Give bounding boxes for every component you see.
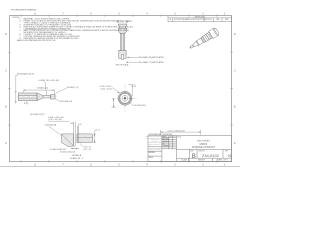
svg-text:WEIGHT:: WEIGHT: <box>198 160 206 162</box>
svg-text:(.04): (.04) <box>70 123 74 125</box>
svg-text:JMS: JMS <box>169 136 172 138</box>
svg-text:[1.42 +.05/-.03]: [1.42 +.05/-.03] <box>48 119 62 121</box>
svg-text:Ø0.046[Ø1.17] MIN PLATED: Ø0.046[Ø1.17] MIN PLATED <box>138 61 164 64</box>
svg-text:TITLE:: TITLE: <box>177 136 182 138</box>
svg-text:SECTION A-A: SECTION A-A <box>116 63 129 66</box>
svg-text:[1.27 +.3]: [1.27 +.3] <box>83 149 91 151</box>
svg-text:234-0102: 234-0102 <box>202 153 220 158</box>
svg-text:DETAIL B: DETAIL B <box>72 154 82 157</box>
svg-text:0.060±.005[1.52]: 0.060±.005[1.52] <box>60 152 75 154</box>
svg-text:(.12): (.12) <box>120 22 124 24</box>
svg-text:(.03): (.03) <box>78 124 82 126</box>
svg-text:B: B <box>192 154 196 160</box>
svg-text:CHECKED: CHECKED <box>162 138 168 140</box>
svg-text:B (2): B (2) <box>24 103 29 105</box>
svg-text:03/15/21: 03/15/21 <box>205 19 211 21</box>
svg-text:(0.1): (0.1) <box>95 130 99 132</box>
svg-text:[3.25 +0.05]: [3.25 +0.05] <box>101 88 112 90</box>
svg-text:REVISIONS: REVISIONS <box>195 16 206 18</box>
svg-text:SIZE: SIZE <box>190 150 193 152</box>
svg-text:Ø0.0600[Ø1.52] 4X: Ø0.0600[Ø1.52] 4X <box>17 74 35 76</box>
svg-text:Ø0.145[3.68]: Ø0.145[3.68] <box>134 105 146 107</box>
svg-text:Ø0.046[1.17]: Ø0.046[1.17] <box>67 87 79 89</box>
svg-text:PRO/ENGINEER DRAWING: PRO/ENGINEER DRAWING <box>11 9 37 12</box>
svg-text:Ø0.066[Ø1.68] MIN PLATED: Ø0.066[Ø1.68] MIN PLATED <box>138 56 164 59</box>
svg-text:0.415 ±.005[10.54]: 0.415 ±.005[10.54] <box>168 130 185 132</box>
svg-text:SCALE 40 : 1: SCALE 40 : 1 <box>70 157 84 160</box>
svg-text:JMS: JMS <box>216 19 219 21</box>
svg-text:REV: REV <box>225 150 228 152</box>
svg-text:FINISH: FINISH <box>149 157 153 159</box>
svg-text:SCALE: 4:1: SCALE: 4:1 <box>181 159 190 162</box>
svg-text:(0.092)[2.34]: (0.092)[2.34] <box>45 124 57 126</box>
svg-text:R0.005[0.13] 2X: R0.005[0.13] 2X <box>30 114 45 116</box>
svg-text:01: 01 <box>228 154 232 158</box>
svg-text:3/15: 3/15 <box>173 136 176 138</box>
svg-text:SHEET 1 OF 1: SHEET 1 OF 1 <box>217 160 228 162</box>
svg-text:CHANGE CONTACT: CHANGE CONTACT <box>192 146 216 149</box>
svg-text:Ø0.040[1.02]: Ø0.040[1.02] <box>60 101 72 103</box>
svg-text:BANDOLIER PACKAGING PER SPEC 2: BANDOLIER PACKAGING PER SPEC 204. <box>17 39 56 42</box>
svg-text:0.030[0.76] +.002/-.001: 0.030[0.76] +.002/-.001 <box>39 80 61 82</box>
svg-text:COMMENTS:: COMMENTS: <box>162 145 171 147</box>
svg-text:0.560[14.22]: 0.560[14.22] <box>37 88 49 90</box>
svg-text:DRW: DRW <box>225 19 229 21</box>
